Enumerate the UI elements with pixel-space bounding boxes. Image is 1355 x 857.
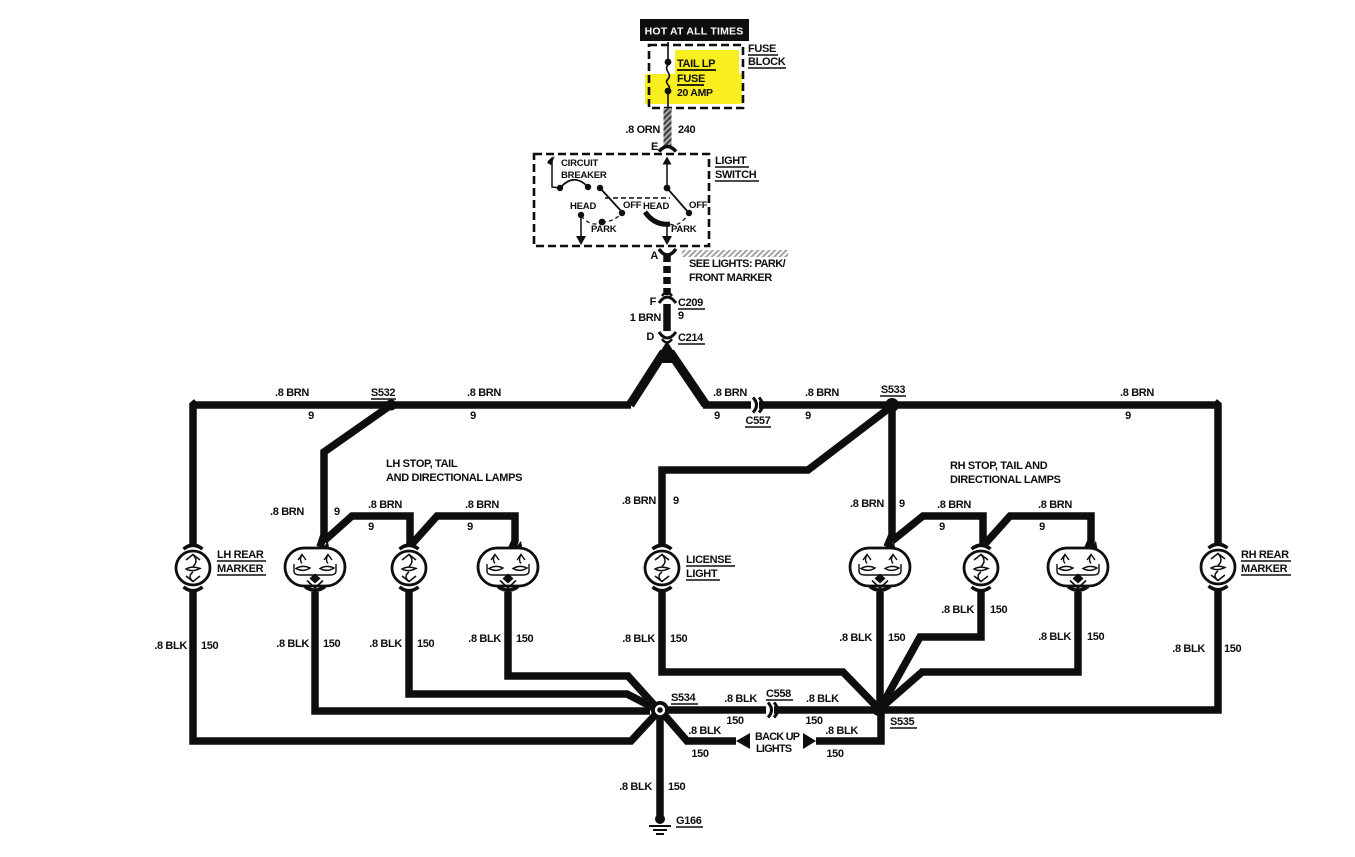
svg-text:9: 9 — [939, 521, 945, 533]
label BACK UP LIGHTS — [755, 731, 800, 755]
wire RH dual1 to S535 — [839, 592, 905, 709]
fuse highlight yellow — [645, 50, 742, 104]
svg-text:20 AMP: 20 AMP — [677, 87, 713, 99]
svg-text:.8 BRN: .8 BRN — [1120, 387, 1154, 399]
svg-text:150: 150 — [826, 748, 844, 760]
svg-text:.8 BRN: .8 BRN — [275, 387, 309, 399]
svg-text:FRONT MARKER: FRONT MARKER — [689, 272, 772, 284]
svg-text:9: 9 — [1125, 410, 1131, 422]
splice S534 — [671, 692, 698, 704]
svg-text:BREAKER: BREAKER — [561, 170, 607, 181]
label LICENSE LIGHT — [686, 554, 735, 580]
svg-text:150: 150 — [201, 640, 219, 652]
svg-text:.8 BLK: .8 BLK — [688, 725, 721, 737]
svg-text:LH STOP, TAIL: LH STOP, TAIL — [386, 458, 458, 470]
svg-text:E: E — [651, 141, 658, 153]
fuse block box — [649, 45, 743, 108]
svg-text:.8 BRN: .8 BRN — [368, 499, 402, 511]
svg-text:150: 150 — [726, 715, 744, 727]
wire RH dual2 to S535 — [882, 592, 1105, 707]
splice S534 node — [651, 701, 669, 719]
svg-text:9: 9 — [470, 410, 476, 422]
connector C209 — [650, 293, 705, 310]
wire back up lights to S535 — [803, 710, 881, 760]
wire 1 BRN 9 — [630, 304, 684, 331]
connector A — [650, 249, 676, 262]
splice S535 node — [872, 702, 886, 716]
svg-text:LIGHTS: LIGHTS — [756, 743, 792, 755]
right output arrow — [662, 224, 672, 245]
svg-text:.8 BLK: .8 BLK — [154, 640, 187, 652]
svg-text:150: 150 — [888, 632, 906, 644]
svg-text:S534: S534 — [671, 692, 697, 704]
svg-text:150: 150 — [323, 638, 341, 650]
svg-text:9: 9 — [899, 498, 905, 510]
svg-text:9: 9 — [1039, 521, 1045, 533]
wire jog RH single to lamp 3 — [984, 499, 1099, 557]
svg-text:.8 BLK: .8 BLK — [369, 638, 402, 650]
svg-text:AND DIRECTIONAL LAMPS: AND DIRECTIONAL LAMPS — [386, 472, 522, 484]
wire A to F (dashed heavy) — [663, 255, 671, 295]
svg-text:.8 BLK: .8 BLK — [276, 638, 309, 650]
svg-text:C557: C557 — [746, 415, 771, 427]
svg-text:S535: S535 — [890, 716, 915, 728]
svg-text:.8 BLK: .8 BLK — [619, 781, 652, 793]
svg-text:S533: S533 — [881, 384, 906, 396]
lamp RH single — [964, 545, 998, 591]
svg-text:OFF: OFF — [689, 200, 708, 211]
group label RH STOP — [950, 460, 1061, 486]
svg-text:.8 BRN: .8 BRN — [467, 387, 501, 399]
bus right .8 BRN — [703, 387, 1218, 422]
svg-text:G166: G166 — [676, 815, 702, 827]
wire bus left end down to LH rear marker — [193, 402, 197, 546]
wire LH dual2 to S534 — [468, 592, 656, 707]
svg-text:FUSE: FUSE — [748, 43, 776, 55]
svg-text:9: 9 — [308, 410, 314, 422]
svg-text:F: F — [650, 296, 657, 308]
splice V from C214 — [630, 341, 706, 405]
svg-text:150: 150 — [417, 638, 435, 650]
wire S534 to G166 — [619, 710, 685, 816]
svg-text:RH STOP, TAIL AND: RH STOP, TAIL AND — [950, 460, 1048, 472]
svg-text:9: 9 — [467, 521, 473, 533]
svg-text:.8 BLK: .8 BLK — [941, 604, 974, 616]
svg-text:OFF: OFF — [623, 200, 642, 211]
svg-text:9: 9 — [368, 521, 374, 533]
svg-text:.8 BLK: .8 BLK — [1172, 643, 1205, 655]
wire license light to S535 — [622, 592, 876, 706]
svg-text:.8 ORN: .8 ORN — [625, 124, 660, 136]
wire S533 down to RH lamp 1 — [850, 406, 905, 558]
svg-text:MARKER: MARKER — [1241, 563, 1288, 575]
svg-text:DIRECTIONAL LAMPS: DIRECTIONAL LAMPS — [950, 474, 1061, 486]
right PARK contact — [670, 215, 697, 235]
lamp LH rear marker — [176, 545, 210, 591]
svg-text:LIGHT: LIGHT — [715, 155, 747, 167]
svg-text:HEAD: HEAD — [570, 201, 596, 212]
fuse block label — [748, 43, 786, 68]
lamp RH rear marker — [1201, 544, 1235, 590]
svg-text:150: 150 — [668, 781, 686, 793]
splice S533 — [880, 384, 906, 412]
fuse labels TAIL LP FUSE 20 AMP — [677, 58, 716, 99]
svg-text:TAIL LP: TAIL LP — [677, 58, 715, 70]
ground G166 — [649, 814, 703, 834]
svg-text:RH REAR: RH REAR — [1241, 549, 1289, 561]
lamp license light — [645, 545, 679, 591]
wire S534 to back up lights — [660, 710, 750, 760]
wire jog LH single to lamp 3 — [411, 499, 524, 557]
fuse TAIL LP element — [665, 42, 672, 108]
svg-text:1 BRN: 1 BRN — [630, 312, 662, 324]
svg-text:.8 BRN: .8 BRN — [805, 387, 839, 399]
note SEE LIGHTS PARK/FRONT MARKER — [682, 250, 788, 284]
svg-text:9: 9 — [805, 410, 811, 422]
svg-text:150: 150 — [1224, 643, 1242, 655]
svg-text:.8 BRN: .8 BRN — [270, 506, 304, 518]
svg-text:A: A — [650, 250, 658, 262]
wire S534 to S535 — [660, 693, 879, 727]
svg-text:LICENSE: LICENSE — [686, 554, 731, 566]
svg-text:.8 BLK: .8 BLK — [468, 633, 501, 645]
svg-text:9: 9 — [714, 410, 720, 422]
circuit breaker label — [561, 158, 607, 181]
wire RH rear marker to S535 — [879, 591, 1242, 710]
svg-text:240: 240 — [678, 124, 696, 136]
svg-text:150: 150 — [990, 604, 1008, 616]
svg-text:PARK: PARK — [671, 224, 697, 235]
lamp LH stop/tail dual 1 — [285, 548, 345, 590]
svg-text:.8 BRN: .8 BRN — [622, 495, 656, 507]
svg-text:BLOCK: BLOCK — [748, 56, 786, 68]
svg-text:9: 9 — [673, 495, 679, 507]
wire jog RH lamp1 to single lamp — [892, 499, 983, 545]
left PARK contact — [581, 214, 621, 235]
svg-text:C558: C558 — [766, 688, 791, 700]
splice S532 — [371, 387, 397, 411]
wire bus right end down to RH rear marker — [1215, 402, 1219, 546]
svg-text:C214: C214 — [678, 332, 704, 344]
lamp LH stop/tail dual 2 — [478, 548, 538, 590]
label HOT AT ALL TIMES — [640, 19, 749, 41]
svg-text:150: 150 — [670, 633, 688, 645]
svg-text:150: 150 — [1087, 631, 1105, 643]
wire LH rear marker to S534 — [154, 592, 657, 741]
svg-text:HOT AT ALL TIMES: HOT AT ALL TIMES — [645, 26, 744, 38]
svg-text:.8 BRN: .8 BRN — [465, 499, 499, 511]
svg-text:150: 150 — [516, 633, 534, 645]
left HEAD contact — [570, 201, 596, 245]
switch link dashed — [605, 197, 670, 199]
svg-text:LH REAR: LH REAR — [217, 549, 264, 561]
svg-text:150: 150 — [691, 748, 709, 760]
svg-text:BACK UP: BACK UP — [755, 731, 800, 743]
svg-text:9: 9 — [678, 310, 684, 322]
svg-text:CIRCUIT: CIRCUIT — [561, 158, 599, 169]
svg-text:.8 BLK: .8 BLK — [825, 725, 858, 737]
lamp RH stop/tail dual 2 — [1048, 548, 1108, 590]
lamp LH single — [392, 545, 426, 591]
right switch input — [663, 157, 693, 217]
wire RH single to S535 — [881, 592, 1008, 707]
connector E — [651, 141, 676, 153]
svg-text:SWITCH: SWITCH — [715, 169, 757, 181]
svg-text:.8 BRN: .8 BRN — [713, 387, 747, 399]
label RH REAR MARKER — [1241, 549, 1291, 575]
connector C214 — [646, 331, 705, 344]
splice S535 — [890, 716, 917, 728]
label LH REAR MARKER — [217, 549, 266, 575]
connector C557 — [745, 398, 771, 428]
svg-text:SEE LIGHTS: PARK/: SEE LIGHTS: PARK/ — [689, 258, 786, 270]
svg-text:.8 BLK: .8 BLK — [622, 633, 655, 645]
wire LH dual1 to S534 — [276, 592, 650, 711]
wire .8 ORN 240 (hatched) — [625, 108, 695, 147]
svg-text:PARK: PARK — [591, 224, 617, 235]
group label LH STOP — [386, 458, 522, 484]
right HEAD thick contact arc — [645, 212, 670, 224]
svg-text:150: 150 — [805, 715, 823, 727]
connector C558 — [766, 688, 793, 718]
svg-text:.8 BLK: .8 BLK — [806, 693, 839, 705]
wire S533 to license light — [622, 406, 892, 545]
svg-text:.8 BLK: .8 BLK — [1038, 631, 1071, 643]
lamp RH stop/tail dual 1 — [850, 548, 910, 590]
light switch label — [715, 155, 759, 181]
svg-text:FUSE: FUSE — [677, 73, 705, 85]
svg-text:.8 BRN: .8 BRN — [1038, 499, 1072, 511]
wire jog LH lamp1 to single lamp — [324, 499, 410, 545]
light switch box — [534, 154, 709, 246]
bus left .8 BRN — [193, 387, 631, 422]
svg-text:LIGHT: LIGHT — [686, 568, 718, 580]
svg-text:.8 BRN: .8 BRN — [850, 498, 884, 510]
svg-text:.8 BRN: .8 BRN — [937, 499, 971, 511]
svg-text:S532: S532 — [371, 387, 396, 399]
wire LH single to S534 — [369, 592, 656, 709]
svg-text:HEAD: HEAD — [643, 201, 669, 212]
svg-text:D: D — [646, 331, 654, 343]
svg-text:9: 9 — [334, 506, 340, 518]
svg-text:.8 BLK: .8 BLK — [724, 693, 757, 705]
wire S532 to LH lamp 1 — [270, 405, 391, 558]
svg-text:MARKER: MARKER — [217, 563, 264, 575]
svg-text:.8 BLK: .8 BLK — [839, 632, 872, 644]
svg-text:C209: C209 — [678, 297, 703, 309]
circuit breaker branch — [547, 156, 625, 216]
